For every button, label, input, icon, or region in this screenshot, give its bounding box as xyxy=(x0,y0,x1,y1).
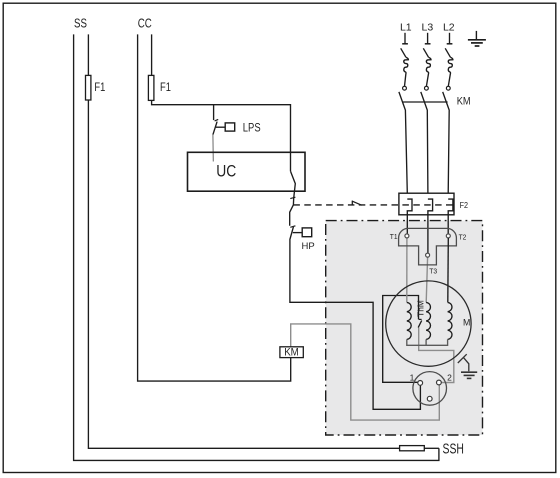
svg-text:HP: HP xyxy=(302,241,315,252)
svg-text:UC: UC xyxy=(216,162,236,180)
svg-text:L2: L2 xyxy=(443,21,455,33)
svg-text:T3: T3 xyxy=(429,266,437,275)
svg-text:KM: KM xyxy=(457,95,471,107)
svg-text:L3: L3 xyxy=(422,21,434,33)
svg-text:M: M xyxy=(463,317,470,327)
svg-text:2: 2 xyxy=(447,373,452,383)
svg-text:SSH: SSH xyxy=(443,441,464,457)
svg-text:SS: SS xyxy=(74,16,87,31)
svg-text:L1: L1 xyxy=(400,21,412,33)
svg-text:T2: T2 xyxy=(459,233,467,242)
svg-text:T1: T1 xyxy=(390,232,398,241)
svg-text:F2: F2 xyxy=(460,200,469,210)
svg-text:CC: CC xyxy=(138,16,152,31)
svg-text:F1: F1 xyxy=(160,80,171,94)
svg-text:F1: F1 xyxy=(94,80,105,94)
svg-text:1: 1 xyxy=(410,373,415,383)
svg-text:LPS: LPS xyxy=(243,120,261,134)
svg-text:ThM: ThM xyxy=(416,300,426,317)
svg-text:KM: KM xyxy=(284,347,299,359)
